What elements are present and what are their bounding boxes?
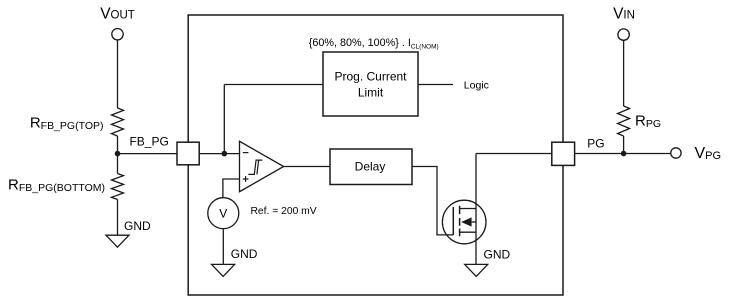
node FB junction <box>115 151 121 157</box>
wire FB junction to FB_PG pin <box>118 153 178 155</box>
wire VOUT to RFB_PG(TOP) <box>117 40 119 108</box>
pin plus <box>243 178 249 180</box>
resistor RPG <box>618 106 630 136</box>
wire to Prog. Current Limit <box>224 84 323 86</box>
node comparator input junction <box>222 151 228 157</box>
block Delay <box>330 149 412 185</box>
svg-text:Limit: Limit <box>358 86 384 100</box>
svg-text:FB_PG: FB_PG <box>129 134 168 148</box>
svg-text:GND: GND <box>124 219 151 233</box>
wire RPG to junction <box>623 136 625 154</box>
pin PG <box>552 142 575 165</box>
svg-text:PG: PG <box>587 137 604 151</box>
op-amp comparator U1 <box>240 141 284 191</box>
wire comparator output to Delay <box>284 166 330 168</box>
ground internal left <box>212 264 235 276</box>
ground under MOSFET <box>465 264 488 276</box>
wire drain to PG pin <box>476 153 552 155</box>
svg-text:Prog. Current: Prog. Current <box>334 70 407 84</box>
wire Prog. Current Limit to Logic <box>418 84 453 86</box>
svg-text:GND: GND <box>484 247 511 261</box>
ground left outer <box>106 235 129 247</box>
transistor Q1 MOSFET <box>442 200 486 244</box>
terminal VPG <box>671 148 681 158</box>
pin FB_PG <box>177 142 199 165</box>
wire RFB_PG(TOP) to junction <box>117 136 119 174</box>
drain connection <box>460 208 476 210</box>
wire VIN terminal to RPG <box>623 40 625 106</box>
gate line <box>452 207 454 235</box>
voltage reference V <box>208 198 239 229</box>
source connection <box>460 231 476 233</box>
svg-text:Logic: Logic <box>464 80 489 92</box>
resistor RFB_PG(TOP) <box>112 108 124 136</box>
IC boundary <box>188 15 563 295</box>
wire junction up <box>223 85 225 154</box>
wire PG pin to VPG <box>575 153 671 155</box>
body arrow <box>461 217 471 226</box>
terminal VIN <box>618 29 629 40</box>
svg-text:V: V <box>219 207 227 221</box>
wire comparator plus input <box>223 179 240 197</box>
pin minus <box>243 152 249 154</box>
node PG junction <box>621 151 627 157</box>
wire RFB_PG(BOTTOM) to ground <box>117 200 119 236</box>
wire FB_PG pin to comparator minus input <box>199 153 239 155</box>
terminal VOUT <box>112 29 123 40</box>
block Prog. Current Limit <box>323 52 418 116</box>
resistor RFB_PG(BOTTOM) <box>112 174 124 200</box>
svg-text:GND: GND <box>231 247 258 261</box>
channel segments <box>459 206 461 214</box>
svg-text:Delay: Delay <box>355 160 386 174</box>
wire reference to ground <box>222 229 224 264</box>
wire Delay to MOSFET gate <box>412 167 453 235</box>
svg-text:Ref. = 200 mV: Ref. = 200 mV <box>251 206 317 217</box>
wire drain up and source down <box>475 154 477 265</box>
hysteresis symbol <box>248 160 262 174</box>
